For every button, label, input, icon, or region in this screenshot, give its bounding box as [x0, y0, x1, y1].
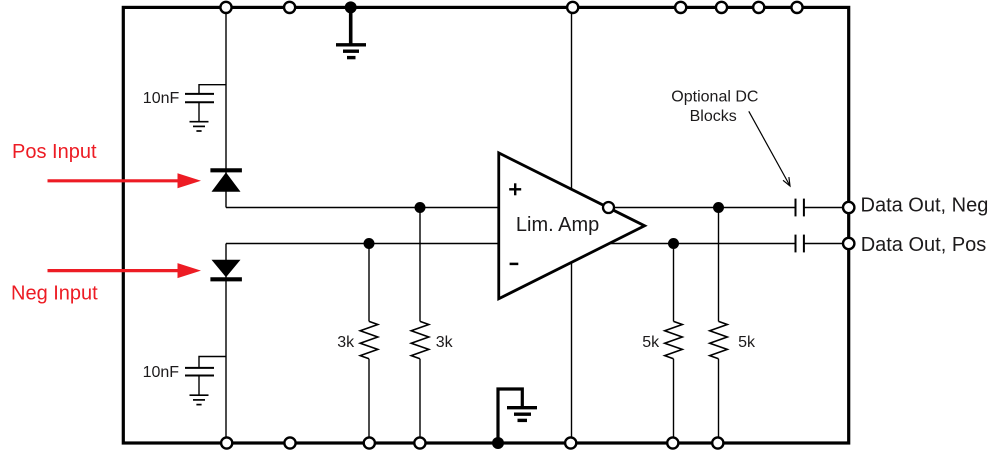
label Data Out, Pos [861, 234, 987, 256]
resistor R3 5k (x=673.5) [665, 244, 683, 444]
svg-text:10nF: 10nF [143, 364, 180, 381]
wire vertical left chain bottom (x=226) [225, 244, 227, 444]
wire output Data Out Pos (y=243.5) [598, 243, 849, 245]
ground (thin) under C2 [190, 395, 209, 404]
label Pos Input (red) [12, 141, 97, 163]
svg-text:10nF: 10nF [143, 90, 180, 107]
resistor R1 3k (x=369) [360, 244, 378, 444]
op-amp - pin mark [510, 263, 519, 266]
op-amp label Lim. Amp [516, 214, 599, 236]
svg-text:Lim. Amp: Lim. Amp [516, 214, 599, 236]
terminal pins bottom rail [221, 437, 723, 448]
junction dot node D (pos out to R3) [668, 238, 679, 249]
ground (thick) top middle [336, 7, 366, 57]
label Optional DC Blocks [671, 88, 758, 125]
diode D1 (Pos input, cathode up) [210, 170, 242, 192]
junction dot top rail ground [345, 1, 357, 13]
label 10nF (bottom capacitor) [143, 364, 180, 381]
red arrow Pos Input [48, 173, 202, 188]
red arrow Neg Input [48, 263, 202, 278]
op-amp output inversion circle [603, 202, 614, 213]
op-amp U1 Lim. Amp [499, 153, 645, 299]
resistor R2 3k (x=420) [411, 208, 429, 444]
outer box [123, 7, 848, 443]
junction dot node B (-wire to R1) [364, 238, 375, 249]
junction dot node C (neg out to R4) [713, 202, 724, 213]
diode D2 (Neg input, cathode down) [210, 260, 242, 280]
op-amp + pin mark [509, 183, 521, 195]
capacitor C2 10nF bottom-left [185, 357, 227, 395]
label Data Out, Neg [861, 194, 989, 216]
terminal pins top rail [220, 2, 802, 13]
label 5k (R3) [642, 334, 660, 351]
label 3k (R1) [337, 334, 355, 351]
resistor R4 5k (x=718.5) [710, 208, 728, 444]
wire output Data Out Neg (y=207.5) [609, 207, 849, 209]
wire - input (y=243.5) [226, 243, 500, 245]
terminal pin Data Out Pos [843, 238, 854, 249]
svg-text:Data Out, Neg: Data Out, Neg [861, 194, 989, 216]
ground (thin) under C1 [190, 122, 209, 131]
capacitor C3 DC block (Neg out) [796, 199, 804, 217]
svg-text:3k: 3k [337, 334, 355, 351]
svg-text:5k: 5k [738, 334, 756, 351]
label 3k (R2) [436, 334, 454, 351]
pointer arrow to DC block [749, 111, 790, 186]
svg-text:Data Out, Pos: Data Out, Pos [861, 234, 987, 256]
svg-text:Optional DC: Optional DC [671, 88, 758, 105]
svg-text:Pos Input: Pos Input [12, 141, 97, 163]
junction dot bottom rail ground [492, 437, 504, 449]
capacitor C4 DC block (Pos out) [796, 235, 804, 253]
junction dot node A (+wire to R2) [415, 202, 426, 213]
ground (thick) bottom middle with L-stub [498, 389, 537, 443]
wire + input (y=207.5) [226, 207, 500, 209]
svg-text:5k: 5k [642, 334, 660, 351]
wire vertical center (x=571.5 top rail to bottom rail, under op-amp) [571, 7, 573, 443]
label Neg Input (red) [11, 283, 98, 305]
label 10nF (top capacitor) [143, 90, 180, 107]
svg-text:Neg Input: Neg Input [11, 283, 98, 305]
label 5k (R4) [738, 334, 756, 351]
wire vertical left chain top (x=226) [225, 7, 227, 207]
capacitor C1 10nF top-left [185, 85, 227, 122]
svg-text:Blocks: Blocks [690, 108, 737, 125]
svg-text:3k: 3k [436, 334, 454, 351]
terminal pin Data Out Neg [843, 202, 854, 213]
